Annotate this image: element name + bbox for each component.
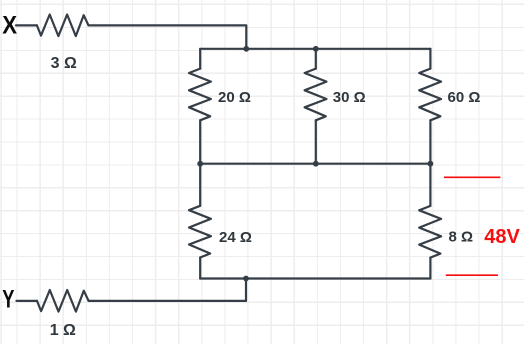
svg-text:20 Ω: 20 Ω	[218, 89, 251, 106]
svg-text:24 Ω: 24 Ω	[219, 229, 252, 246]
wire bottom bus	[200, 277, 430, 279]
resistor 24Ω body	[189, 206, 211, 258]
annotation red line above 8Ω	[444, 176, 500, 178]
junction dot at 30Ω branch and middle bus	[313, 161, 319, 167]
junction dot at Y branch and bottom bus	[243, 276, 249, 282]
wire top lead of resistor 60Ω	[429, 49, 431, 69]
junction dot at 20Ω/24Ω branch and middle bus	[197, 161, 203, 167]
resistor 1Ω body	[37, 290, 89, 312]
wire top lead of resistor 24Ω	[199, 164, 201, 206]
resistor 30Ω body	[305, 69, 327, 121]
svg-text:30 Ω: 30 Ω	[333, 89, 366, 106]
wire from bottom bus junction down to resistor 1Ω wire	[245, 279, 247, 301]
svg-text:8 Ω: 8 Ω	[449, 229, 474, 246]
wire bottom lead of resistor 24Ω to bottom bus	[199, 258, 201, 279]
svg-text:48V: 48V	[484, 226, 520, 248]
svg-text:X: X	[2, 12, 17, 40]
resistor 60Ω body	[419, 69, 441, 121]
wire top lead of resistor 30Ω	[315, 49, 317, 69]
wire from resistor 1Ω to bottom junction	[89, 300, 246, 302]
resistor 8Ω body	[419, 206, 441, 258]
wire top lead of resistor 20Ω	[199, 49, 201, 69]
wire bottom lead of resistor 20Ω to middle bus	[199, 120, 201, 163]
svg-text:1 Ω: 1 Ω	[50, 322, 76, 339]
svg-text:60 Ω: 60 Ω	[448, 89, 481, 106]
wire top bus	[200, 48, 430, 50]
wire middle bus	[200, 163, 430, 165]
junction dot at X branch and top bus	[243, 46, 249, 52]
annotation red line below 8Ω	[446, 274, 498, 276]
wire bottom lead of resistor 8Ω to bottom bus	[429, 258, 431, 279]
wire from resistor 3Ω to top bus corner	[89, 25, 247, 48]
junction dot at 60Ω/8Ω branch and middle bus	[428, 161, 434, 167]
svg-text:3 Ω: 3 Ω	[51, 55, 77, 72]
wire from node X to resistor 3Ω	[16, 24, 37, 26]
resistor 3Ω body	[37, 15, 89, 37]
wire from node Y to resistor 1Ω	[17, 300, 38, 302]
wire top lead of resistor 8Ω	[429, 164, 431, 206]
wire bottom lead of resistor 30Ω to middle bus	[315, 120, 317, 163]
junction dot at 30Ω branch and top bus	[313, 46, 319, 52]
svg-text:Y: Y	[2, 286, 14, 314]
resistor 20Ω body	[189, 69, 211, 121]
wire bottom lead of resistor 60Ω to middle bus	[429, 120, 431, 163]
